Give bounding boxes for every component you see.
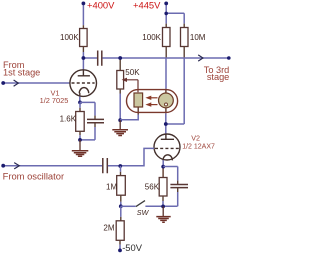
node -50V terminal bbox=[118, 249, 122, 253]
node output terminal bbox=[227, 56, 231, 60]
wire V1 input bbox=[3, 82, 70, 84]
wire 10M bottom down crossover bbox=[183, 47, 185, 58]
node +445V terminal bbox=[164, 2, 168, 6]
svg-text:+445V: +445V bbox=[133, 0, 161, 11]
capacitor C4 V2 cathode bbox=[170, 185, 188, 188]
wire 56K bottom to node bbox=[162, 196, 164, 201]
potentiometer 50K body bbox=[117, 71, 124, 90]
wire node to ground bbox=[79, 140, 81, 151]
wire 2M bottom to -50V bbox=[119, 240, 121, 244]
node 1M junction bbox=[118, 164, 122, 168]
wire node to ground bbox=[119, 120, 121, 129]
wire +445V feed bbox=[166, 4, 184, 24]
resistor R7 2M bbox=[116, 221, 124, 241]
ground (V2 cathode) bbox=[156, 217, 170, 223]
wire pot bottom to ground node bbox=[119, 89, 121, 94]
wire +400V feed bbox=[82, 4, 84, 25]
wire LDR bottom to ground node bbox=[137, 107, 139, 115]
resistor R6 1M bbox=[117, 176, 126, 196]
wire V2 cathode down bbox=[162, 160, 164, 168]
svg-text:stage: stage bbox=[207, 72, 229, 82]
optocoupler housing bbox=[127, 90, 178, 113]
svg-text:50K: 50K bbox=[125, 68, 140, 77]
capacitor C3 oscillator coupling bbox=[103, 158, 108, 173]
node +400V terminal bbox=[82, 2, 86, 6]
node +445V branch junction bbox=[164, 12, 168, 16]
svg-text:1.6K: 1.6K bbox=[60, 115, 77, 124]
svg-text:+400V: +400V bbox=[87, 0, 115, 11]
wire cap C4 bottom lead bbox=[177, 188, 179, 192]
svg-text:56K: 56K bbox=[145, 183, 160, 192]
wire plate node to coupling cap bbox=[83, 57, 97, 59]
pot wiper arrow bbox=[126, 80, 138, 93]
node V2 plate junction bbox=[164, 122, 168, 126]
wire 1M bottom to SW node bbox=[120, 195, 122, 202]
wire bus to 50K pot bbox=[119, 59, 121, 71]
light arrows bbox=[151, 97, 158, 99]
resistor R8 56K bbox=[159, 178, 167, 197]
capacitor C2 cathode bypass bbox=[87, 119, 104, 122]
node plate/cap junction bbox=[82, 56, 86, 60]
node 56K/ground junction bbox=[161, 205, 165, 209]
wire cathode node to bypass cap bbox=[80, 102, 95, 115]
wire R2 bottom to bus bbox=[165, 47, 167, 58]
switch SW blade bbox=[136, 201, 145, 207]
wire node to 1M bbox=[120, 166, 122, 172]
lamp bbox=[159, 93, 174, 108]
node V2 cathode junction bbox=[161, 165, 165, 169]
resistor R5 1.6K bbox=[76, 112, 85, 132]
wire cathode node to cap C4 bbox=[163, 167, 178, 181]
wire main signal bus to 3rd stage bbox=[102, 57, 228, 59]
LDR element bbox=[134, 93, 143, 107]
svg-text:1M: 1M bbox=[106, 183, 117, 192]
svg-text:2M: 2M bbox=[103, 224, 114, 233]
arrow oscillator signal bbox=[14, 163, 19, 169]
wire bypass cap bottom to node bbox=[94, 123, 96, 127]
wire node to ground bbox=[162, 206, 164, 216]
wire 10M leg to plate node V2 bbox=[166, 123, 184, 125]
ground (50K / LDR) bbox=[112, 130, 128, 136]
capacitor C1 coupling bbox=[98, 51, 102, 66]
svg-text:1st stage: 1st stage bbox=[3, 67, 40, 77]
wire cap to V2 grid bbox=[108, 148, 154, 165]
svg-text:100K: 100K bbox=[142, 33, 161, 42]
node SW junction bbox=[119, 204, 123, 208]
wire SW node to 2M bbox=[120, 206, 122, 217]
tube V2 triode bbox=[154, 134, 180, 160]
node cathode ground junction bbox=[78, 138, 82, 142]
wire V1 cathode to node bbox=[79, 93, 81, 97]
resistor R3 10M bbox=[181, 28, 189, 47]
resistor R2 100K (upper right) bbox=[163, 28, 171, 47]
svg-text:-50V: -50V bbox=[122, 242, 143, 253]
node cathode junction bbox=[78, 101, 82, 105]
tube V1 triode bbox=[70, 70, 97, 97]
wire R1 bottom to V1 plate bbox=[82, 47, 84, 53]
svg-text:From oscillator: From oscillator bbox=[3, 171, 64, 182]
wire cathode node to 1.6K bbox=[79, 102, 81, 107]
svg-text:1/2 7025: 1/2 7025 bbox=[40, 96, 69, 105]
arrow input signal bbox=[14, 80, 19, 86]
resistor R1 100K (V1 plate load) bbox=[80, 29, 88, 47]
arrow to 3rd stage bbox=[198, 55, 203, 61]
wire 1.6K bottom to node bbox=[79, 131, 81, 135]
wire lamp bottom to V2 plate bbox=[165, 108, 167, 114]
svg-text:V2: V2 bbox=[191, 134, 200, 143]
svg-text:1/2 12AX7: 1/2 12AX7 bbox=[182, 144, 215, 151]
node input terminal 1st stage bbox=[1, 81, 5, 85]
svg-text:100K: 100K bbox=[60, 33, 79, 42]
ground (V1 cathode) bbox=[72, 151, 89, 157]
node pot/LDR ground junction bbox=[118, 118, 122, 122]
wire switch to 56K node bbox=[145, 205, 177, 207]
node oscillator terminal bbox=[1, 164, 5, 168]
node bus/pot junction bbox=[118, 56, 122, 60]
wire oscillator input bbox=[3, 165, 102, 167]
wire bus to lamp top bbox=[165, 58, 167, 89]
svg-text:10M: 10M bbox=[190, 33, 206, 42]
wire node to switch bbox=[121, 205, 136, 207]
svg-text:SW: SW bbox=[137, 208, 150, 217]
wire R1 top pin bbox=[82, 25, 84, 28]
